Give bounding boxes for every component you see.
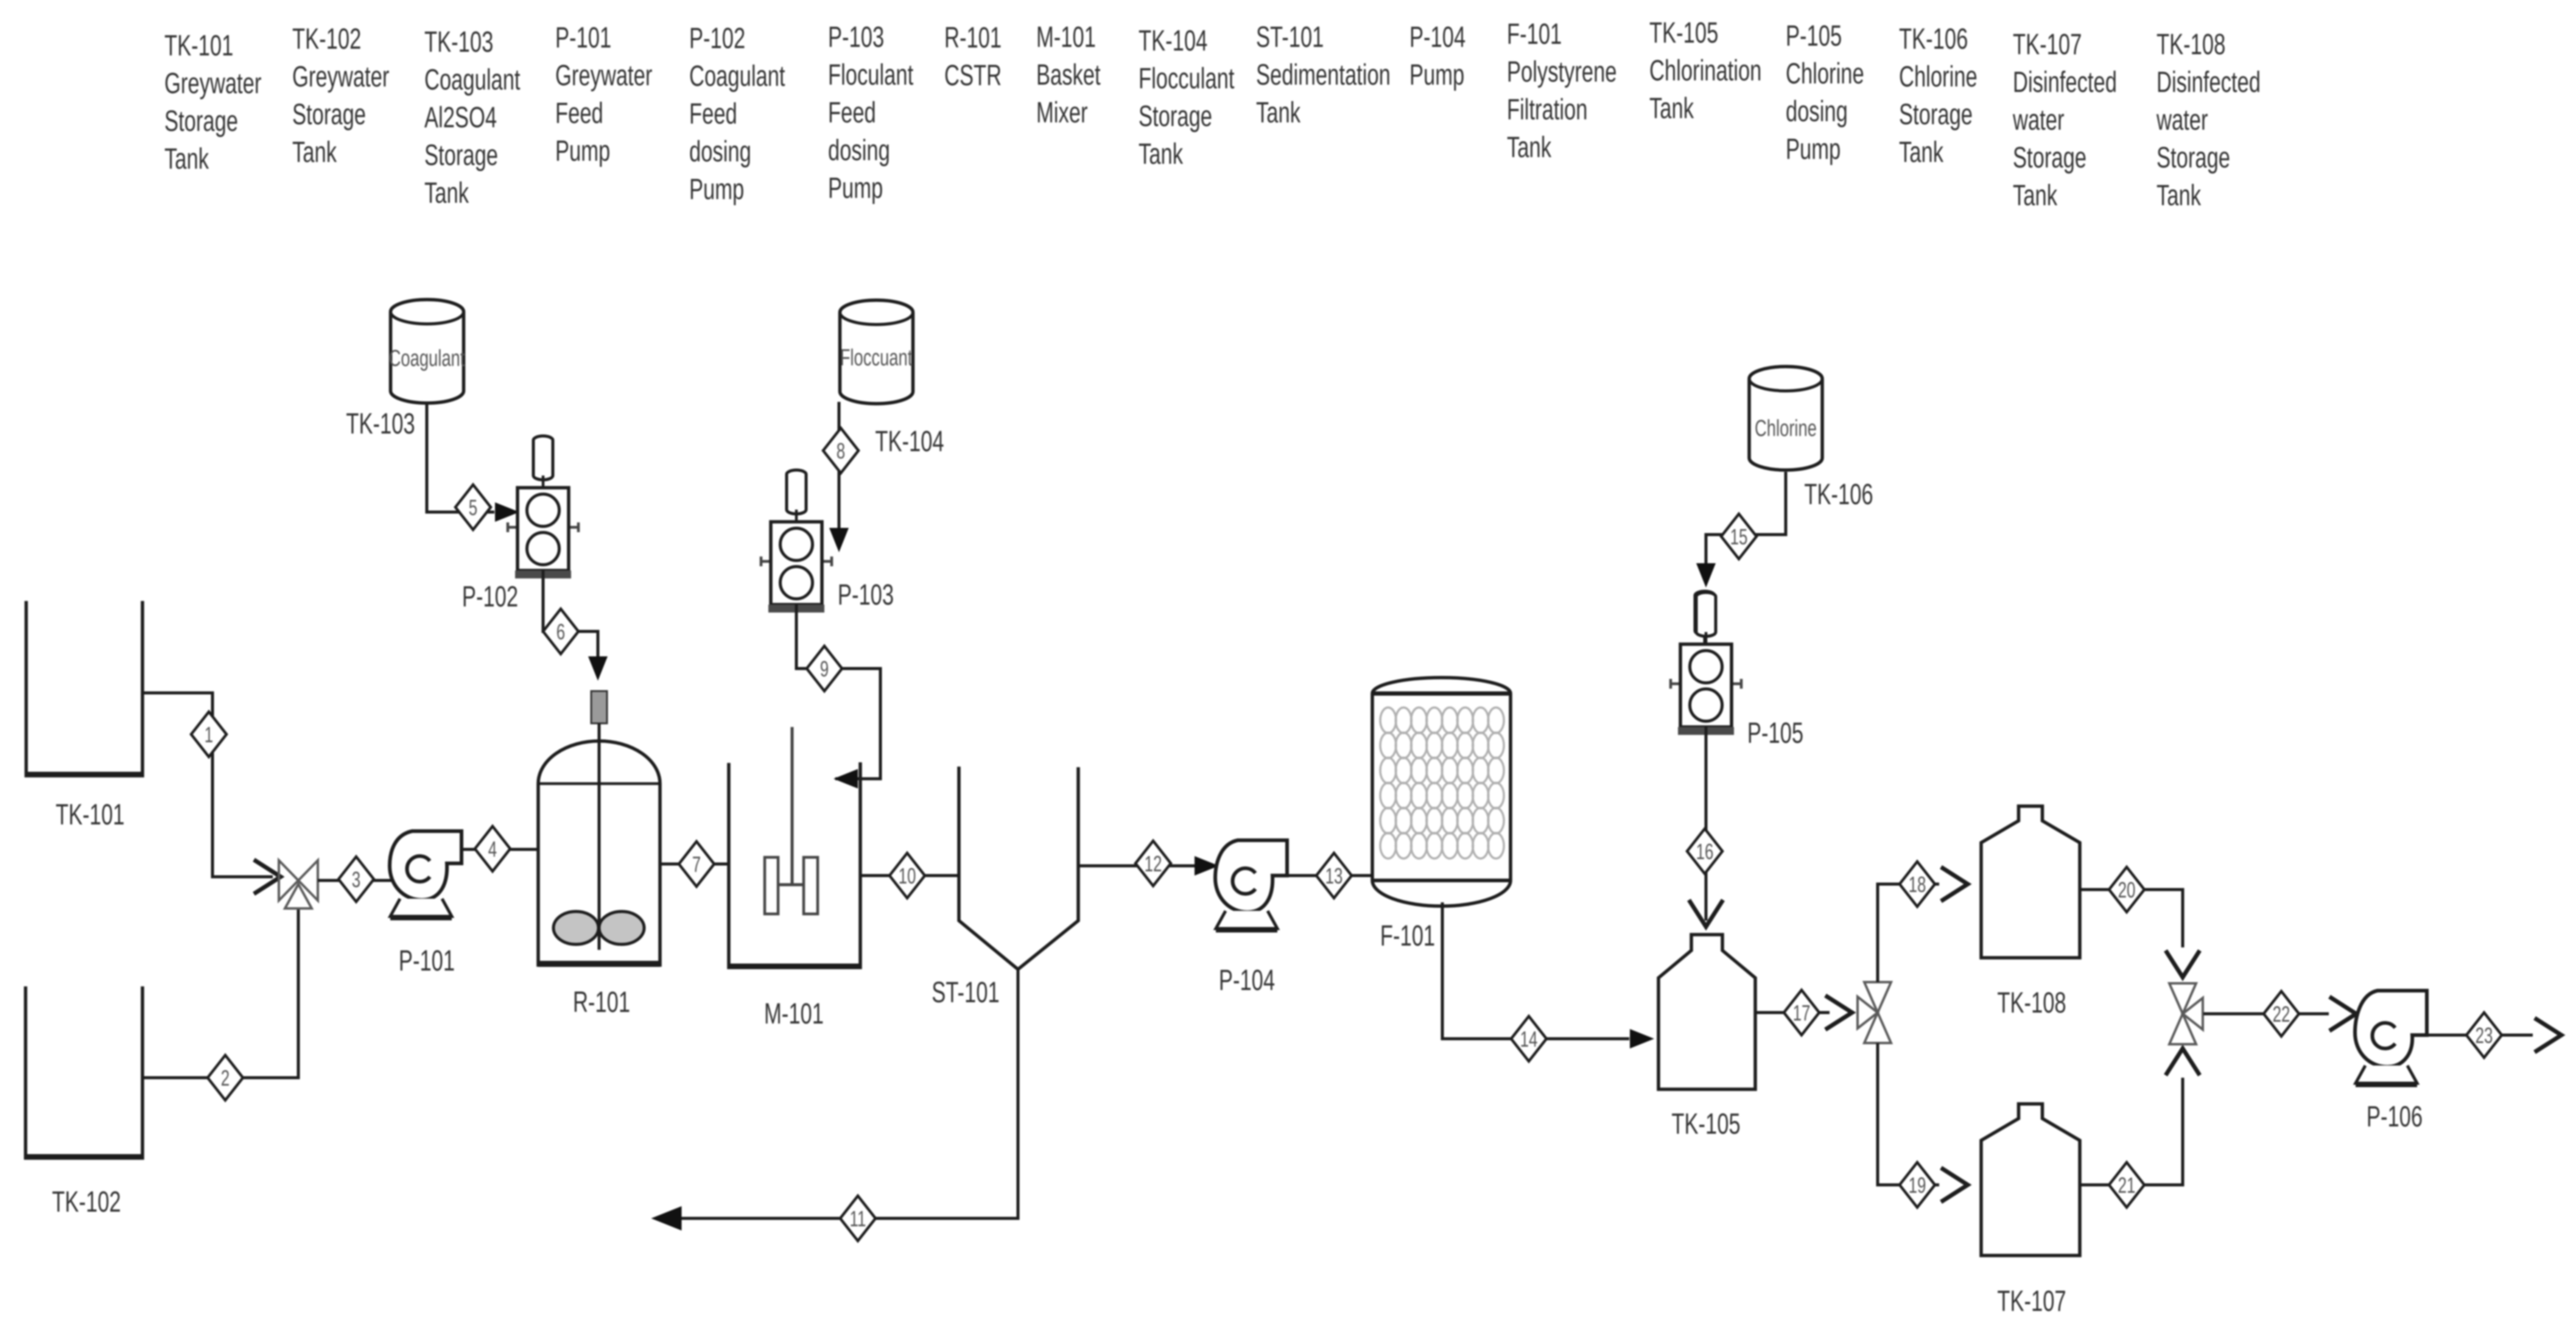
svg-text:TK-103: TK-103 xyxy=(346,407,415,440)
svg-text:15: 15 xyxy=(1730,525,1748,549)
valve V2 (3-way splitting valve) xyxy=(1858,982,1891,1043)
svg-text:Storage: Storage xyxy=(1899,97,1973,130)
svg-text:Pump: Pump xyxy=(1786,132,1841,165)
header legend column M-101 xyxy=(1036,20,1101,128)
header legend column P-102 xyxy=(689,21,785,205)
svg-text:TK-107: TK-107 xyxy=(1997,1284,2066,1317)
svg-text:Tank: Tank xyxy=(1899,135,1943,168)
header legend column P-104 xyxy=(1409,20,1465,91)
header legend column R-101 xyxy=(944,21,1002,91)
label TK-107 xyxy=(1997,1284,2066,1317)
label TK-101 xyxy=(55,798,124,831)
svg-text:P-102: P-102 xyxy=(689,21,745,54)
svg-text:19: 19 xyxy=(1909,1173,1926,1198)
label TK-104 xyxy=(875,424,944,457)
svg-text:water: water xyxy=(2012,103,2064,136)
pump P-101 (centrifugal) xyxy=(390,831,462,918)
svg-text:Coagulant: Coagulant xyxy=(689,59,785,92)
svg-text:Pump: Pump xyxy=(689,172,744,205)
wire TK-105 to valve V2 (stream 17) xyxy=(1755,1011,1830,1014)
header legend column TK-102 xyxy=(292,22,389,168)
tank TK-104 flocculant drum xyxy=(840,300,913,404)
svg-text:16: 16 xyxy=(1696,840,1714,864)
node stream 21 diamond xyxy=(2109,1162,2144,1207)
svg-text:dosing: dosing xyxy=(828,133,890,166)
svg-text:TK-102: TK-102 xyxy=(292,22,361,55)
svg-text:Tank: Tank xyxy=(1256,96,1300,128)
header legend column F-101 xyxy=(1507,17,1617,163)
svg-text:P-103: P-103 xyxy=(838,578,894,611)
svg-text:Sedimentation: Sedimentation xyxy=(1256,58,1391,91)
svg-text:TK-104: TK-104 xyxy=(1139,24,1207,57)
svg-text:Pump: Pump xyxy=(555,134,610,167)
arrowhead into P-102 xyxy=(495,502,519,522)
wire P-101 to reactor R-101 (stream 4) xyxy=(462,848,538,851)
filter F-101 vessel (polystyrene filtration) xyxy=(1372,678,1511,906)
wire P-102 to R-101 injection (stream 6) xyxy=(543,571,598,661)
filter F-101 packing (grid of ellipses) xyxy=(1380,708,1504,859)
tank TK-108 disinfected water storage (carboy) xyxy=(1981,806,2080,958)
svg-text:4: 4 xyxy=(488,837,497,862)
svg-text:Storage: Storage xyxy=(2013,141,2086,174)
label P-102 xyxy=(462,580,518,613)
svg-text:12: 12 xyxy=(1145,852,1162,876)
pump P-106 (centrifugal) xyxy=(2355,991,2427,1084)
reactor R-101 agitator shaft xyxy=(598,723,601,950)
wire P-105 to TK-105 (stream 16) xyxy=(1705,727,1708,921)
tank TK-103 coagulant drum xyxy=(391,300,464,403)
arrowhead into TK-105 xyxy=(1630,1029,1654,1048)
svg-text:Polystyrene: Polystyrene xyxy=(1507,55,1617,88)
wire TK-108 to valve V3 (stream 20) xyxy=(2080,890,2183,947)
node stream 14 diamond xyxy=(1511,1016,1546,1061)
svg-text:TK-105: TK-105 xyxy=(1649,16,1718,49)
open arrowhead up into valve V3 xyxy=(2166,1048,2200,1075)
node stream 17 diamond xyxy=(1784,990,1819,1035)
svg-text:Coagulant: Coagulant xyxy=(424,63,521,96)
svg-text:3: 3 xyxy=(352,868,360,892)
svg-text:21: 21 xyxy=(2118,1173,2136,1198)
pulsation dampener above P-105 xyxy=(1695,591,1714,635)
svg-text:7: 7 xyxy=(692,852,701,877)
arrowhead into P-106 xyxy=(2329,997,2356,1031)
svg-text:Tank: Tank xyxy=(1139,137,1183,170)
svg-text:CSTR: CSTR xyxy=(944,58,1002,91)
svg-text:F-101: F-101 xyxy=(1507,17,1562,50)
svg-text:water: water xyxy=(2156,103,2208,136)
svg-text:Pump: Pump xyxy=(828,171,883,204)
node stream 13 diamond xyxy=(1316,853,1352,898)
label P-101 xyxy=(399,944,455,977)
svg-text:6: 6 xyxy=(556,620,565,644)
svg-text:Chlorine: Chlorine xyxy=(1899,60,1978,93)
svg-text:dosing: dosing xyxy=(689,135,751,167)
arrowhead into pulsation dampener xyxy=(1696,563,1716,588)
svg-text:17: 17 xyxy=(1793,1001,1811,1025)
label M-101 xyxy=(764,997,824,1030)
wire V2 up to TK-108 (stream 18) xyxy=(1878,884,1939,982)
open arrowhead treated water outlet xyxy=(2535,1018,2561,1052)
label TK-108 xyxy=(1997,986,2066,1019)
svg-text:P-102: P-102 xyxy=(462,580,518,613)
wire dampener to P-105 xyxy=(1704,631,1707,644)
svg-text:Tank: Tank xyxy=(292,135,337,168)
node stream 10 diamond xyxy=(890,853,925,898)
svg-text:P-101: P-101 xyxy=(555,21,611,54)
svg-text:14: 14 xyxy=(1520,1027,1538,1052)
svg-text:Storage: Storage xyxy=(2157,141,2230,174)
node stream 18 diamond xyxy=(1900,862,1935,907)
node stream 4 diamond xyxy=(475,826,510,871)
label Chlorine inside TK-106 xyxy=(1755,416,1817,441)
node stream 2 diamond xyxy=(208,1055,243,1100)
svg-text:TK-108: TK-108 xyxy=(1997,986,2066,1019)
arrowhead into valve V2 xyxy=(1825,996,1852,1030)
svg-text:P-105: P-105 xyxy=(1786,19,1842,52)
svg-text:TK-104: TK-104 xyxy=(875,424,944,457)
node stream 22 diamond xyxy=(2264,991,2299,1036)
svg-text:Flocculant: Flocculant xyxy=(1139,61,1235,94)
svg-text:Basket: Basket xyxy=(1036,58,1101,91)
header legend column TK-106 xyxy=(1899,22,1978,168)
svg-text:Tank: Tank xyxy=(164,142,209,175)
svg-text:Pump: Pump xyxy=(1409,58,1464,91)
svg-text:TK-107: TK-107 xyxy=(2013,27,2082,60)
node stream 7 diamond xyxy=(679,841,714,887)
svg-text:R-101: R-101 xyxy=(573,985,630,1018)
wire TK-101 outlet to valve (stream 1) xyxy=(142,693,273,877)
pump P-104 (centrifugal) xyxy=(1215,840,1287,930)
svg-text:2: 2 xyxy=(221,1066,230,1090)
svg-text:Storage: Storage xyxy=(164,104,238,137)
wire TK-104 to P-103 (stream 8) xyxy=(838,402,841,529)
svg-text:Chlorine: Chlorine xyxy=(1786,57,1864,90)
svg-text:Mixer: Mixer xyxy=(1036,96,1088,128)
header legend column P-105 xyxy=(1786,19,1864,165)
header legend column TK-105 xyxy=(1649,16,1761,124)
reactor R-101 impeller blades (grey) xyxy=(553,911,644,944)
wire P-104 to filter F-101 (stream 13) xyxy=(1287,874,1372,877)
svg-text:Storage: Storage xyxy=(424,138,498,171)
svg-text:Tank: Tank xyxy=(424,176,469,209)
svg-text:Filtration: Filtration xyxy=(1507,93,1587,125)
header legend column TK-101 xyxy=(164,29,261,175)
label P-106 xyxy=(2367,1100,2423,1133)
label TK-106 xyxy=(1804,477,1873,510)
wire V2 down to TK-107 (stream 19) xyxy=(1878,1043,1939,1185)
node stream 16 diamond xyxy=(1687,829,1722,874)
svg-text:M-101: M-101 xyxy=(1036,20,1096,53)
header legend column ST-101 xyxy=(1256,20,1391,128)
header legend column TK-104 xyxy=(1139,24,1235,170)
tank TK-101 thick bottom xyxy=(25,772,144,778)
svg-text:1: 1 xyxy=(205,723,213,747)
svg-text:20: 20 xyxy=(2118,878,2136,902)
svg-text:22: 22 xyxy=(2273,1002,2290,1027)
arrowhead into R-101 nozzle xyxy=(588,656,608,681)
svg-text:Floccuant: Floccuant xyxy=(840,345,913,371)
svg-text:5: 5 xyxy=(469,496,477,520)
svg-text:Al2SO4: Al2SO4 xyxy=(424,100,497,133)
svg-text:9: 9 xyxy=(820,657,829,681)
arrowhead sludge out (left) xyxy=(651,1206,682,1231)
svg-text:Disinfected: Disinfected xyxy=(2157,65,2261,98)
svg-text:TK-108: TK-108 xyxy=(2157,27,2225,60)
svg-text:P-103: P-103 xyxy=(828,20,884,53)
svg-text:TK-103: TK-103 xyxy=(424,25,493,58)
svg-text:Feed: Feed xyxy=(555,96,603,129)
svg-text:P-104: P-104 xyxy=(1409,20,1465,53)
dosing pump P-105 (chlorine dosing) xyxy=(1671,592,1741,735)
svg-text:Coagulant: Coagulant xyxy=(389,346,465,371)
tank TK-105 chlorination tank (carboy) xyxy=(1658,935,1755,1089)
svg-text:Chlorination: Chlorination xyxy=(1649,54,1761,86)
svg-text:23: 23 xyxy=(2476,1024,2493,1048)
svg-text:TK-101: TK-101 xyxy=(55,798,124,831)
svg-text:Greywater: Greywater xyxy=(164,66,261,99)
node stream 20 diamond xyxy=(2109,867,2144,912)
wire V3 to pump P-106 (stream 22) xyxy=(2203,1013,2329,1016)
arrowhead into TK-107 xyxy=(1941,1168,1968,1202)
header legend column P-101 xyxy=(555,21,652,167)
svg-text:P-104: P-104 xyxy=(1219,963,1275,996)
header legend column TK-107 xyxy=(2012,27,2117,211)
open arrowhead into TK-105 neck xyxy=(1689,900,1723,927)
tank TK-106 chlorine drum xyxy=(1749,367,1822,470)
svg-text:P-105: P-105 xyxy=(1747,716,1803,749)
label TK-105 xyxy=(1671,1107,1740,1140)
svg-text:TK-106: TK-106 xyxy=(1804,477,1873,510)
svg-text:Storage: Storage xyxy=(292,97,366,130)
svg-text:ST-101: ST-101 xyxy=(1256,20,1324,53)
svg-text:F-101: F-101 xyxy=(1380,919,1435,952)
svg-text:Greywater: Greywater xyxy=(292,60,389,93)
svg-text:TK-102: TK-102 xyxy=(52,1185,121,1218)
wire TK-103 to P-102 (stream 5) xyxy=(427,403,494,512)
label F-101 xyxy=(1380,919,1435,952)
svg-text:Feed: Feed xyxy=(689,97,737,130)
mixer M-101 agitator (H impeller) xyxy=(765,727,818,914)
wire valve V1 to pump P-101 (stream 3) xyxy=(318,879,393,882)
svg-text:TK-101: TK-101 xyxy=(164,29,233,61)
node stream 9 diamond xyxy=(807,646,842,691)
svg-text:TK-106: TK-106 xyxy=(1899,22,1968,55)
open arrowhead down into valve V3 xyxy=(2166,950,2200,977)
svg-text:Floculant: Floculant xyxy=(828,58,914,91)
arrowhead into 3-way valve V1 xyxy=(254,860,281,894)
wire R-101 to mixer M-101 (stream 7) xyxy=(660,863,729,866)
svg-text:Greywater: Greywater xyxy=(555,58,652,91)
node stream 6 diamond xyxy=(543,609,578,654)
node stream 5 diamond xyxy=(455,485,491,530)
header legend column P-103 xyxy=(828,20,914,204)
wire TK-106 to P-105 (stream 15) xyxy=(1706,472,1786,565)
node stream 12 diamond xyxy=(1135,841,1171,886)
wire TK-102 outlet to valve (stream 2) xyxy=(142,910,298,1078)
header legend column TK-108 xyxy=(2156,27,2261,211)
reactor R-101 injection nozzle (grey) xyxy=(591,691,607,723)
svg-text:dosing: dosing xyxy=(1786,94,1848,127)
label TK-102 xyxy=(52,1185,121,1218)
node stream 11 diamond xyxy=(840,1196,876,1241)
wire P-103 to mixer M-101 (stream 9) xyxy=(796,605,880,779)
wire TK-107 to valve V3 (stream 21) xyxy=(2080,1078,2183,1185)
svg-text:10: 10 xyxy=(899,864,916,888)
svg-text:13: 13 xyxy=(1325,864,1343,888)
arrowhead into M-101 xyxy=(834,769,858,788)
label P-105 xyxy=(1747,716,1803,749)
arrowhead into TK-108 xyxy=(1941,867,1968,901)
svg-text:Tank: Tank xyxy=(1649,91,1694,124)
label Coagulant inside TK-103 xyxy=(389,346,465,371)
wire ST-101 sludge blowdown (stream 11) xyxy=(673,969,1018,1218)
node stream 1 diamond xyxy=(191,712,226,757)
svg-text:18: 18 xyxy=(1909,873,1926,897)
mixer M-101 vessel (basket mixer, open top) xyxy=(728,762,862,968)
svg-text:8: 8 xyxy=(837,439,845,463)
arrowhead into P-104 xyxy=(1195,856,1219,876)
header legend column TK-103 xyxy=(424,25,521,209)
valve V3 (3-way mixing valve) xyxy=(2169,983,2203,1044)
reactor R-101 vessel (CSTR) xyxy=(538,741,660,965)
node stream 19 diamond xyxy=(1900,1162,1935,1207)
wire M-101 to sedimentation tank ST-101 (stream 10) xyxy=(860,874,959,877)
tank TK-102 thick bottom xyxy=(24,1154,144,1160)
svg-text:TK-105: TK-105 xyxy=(1671,1107,1740,1140)
svg-text:P-106: P-106 xyxy=(2367,1100,2423,1133)
node stream 3 diamond xyxy=(339,857,374,902)
svg-text:M-101: M-101 xyxy=(764,997,824,1030)
wire ST-101 to pump P-104 (stream 12) xyxy=(1078,865,1196,868)
label P-104 xyxy=(1219,963,1275,996)
dosing pump P-102 (coagulant feed) xyxy=(508,436,578,578)
svg-text:Feed: Feed xyxy=(828,96,876,128)
svg-text:Tank: Tank xyxy=(2013,178,2057,211)
sedimentation tank ST-101 (funnel bottom) xyxy=(959,767,1078,969)
label TK-103 xyxy=(346,407,415,440)
wire P-106 outlet (stream 23) xyxy=(2427,1034,2533,1037)
tank TK-101 (greywater storage, open top) xyxy=(26,601,142,776)
label Floccuant inside TK-104 xyxy=(840,345,913,371)
node stream 23 diamond xyxy=(2466,1013,2502,1058)
svg-text:Tank: Tank xyxy=(2157,178,2201,211)
node stream 8 diamond xyxy=(823,428,858,473)
svg-text:Chlorine: Chlorine xyxy=(1755,416,1817,441)
arrowhead into P-103 xyxy=(829,528,849,552)
label R-101 xyxy=(573,985,630,1018)
svg-text:R-101: R-101 xyxy=(944,21,1002,54)
svg-text:P-101: P-101 xyxy=(399,944,455,977)
dosing pump P-103 (flocculant feed) xyxy=(761,470,832,613)
node stream 15 diamond xyxy=(1721,514,1757,559)
tank TK-102 (greywater storage, open top) xyxy=(26,986,142,1158)
svg-text:ST-101: ST-101 xyxy=(932,975,999,1008)
svg-text:Storage: Storage xyxy=(1139,99,1212,132)
svg-text:Disinfected: Disinfected xyxy=(2013,65,2117,98)
valve V1 (3-way mixing valve) xyxy=(279,860,318,908)
label ST-101 xyxy=(932,975,999,1008)
tank TK-107 disinfected water storage (carboy) xyxy=(1981,1104,2080,1255)
label P-103 xyxy=(838,578,894,611)
svg-text:11: 11 xyxy=(850,1207,866,1231)
svg-text:Tank: Tank xyxy=(1507,130,1551,163)
wire F-101 to chlorination tank TK-105 (stream 14) xyxy=(1442,902,1629,1039)
